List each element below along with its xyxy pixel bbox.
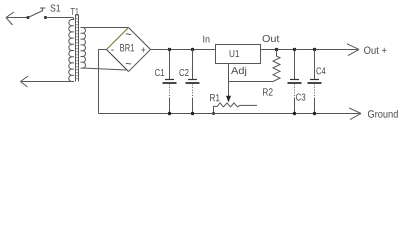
- label R2: [263, 88, 273, 95]
- wire U1 Out rail: [261, 49, 358, 51]
- label In pin: [203, 36, 209, 43]
- wire Adj down to R1 wiper: [228, 82, 230, 97]
- capacitor C4: [308, 50, 322, 114]
- junction C2 bottom: [191, 112, 194, 115]
- label C2: [179, 69, 188, 76]
- label Out pin: [263, 35, 280, 42]
- AC input arrow top-left: [6, 12, 14, 25]
- label BR1 tilde top: [126, 33, 131, 34]
- transformer T1 primary winding: [69, 20, 74, 82]
- junction C1 top: [168, 48, 171, 51]
- switch S1: [27, 8, 48, 19]
- AC input arrow bottom-left: [21, 76, 29, 87]
- capacitor C3: [288, 50, 302, 114]
- bridge rectifier BR1: [107, 28, 151, 72]
- label C3: [296, 94, 305, 101]
- transformer T1 secondary winding: [81, 28, 86, 69]
- label C1: [155, 69, 164, 76]
- junction R2 top: [275, 48, 278, 51]
- wire secondary top to bridge: [82, 27, 128, 29]
- ground rail: [99, 113, 360, 115]
- junction C4 top: [313, 48, 316, 51]
- wire bridge plus to U1 In: [151, 49, 216, 51]
- wire U1 Adj pin: [228, 64, 230, 82]
- junction C4 bottom: [313, 112, 316, 115]
- resistor R2: [273, 50, 280, 82]
- label BR1 plus: [141, 47, 145, 52]
- label S1: [50, 5, 60, 12]
- label T1: [71, 8, 79, 15]
- capacitor C1: [163, 50, 177, 114]
- regulator U1 box: [216, 45, 261, 64]
- label Out +: [364, 46, 386, 53]
- label C4: [316, 67, 325, 74]
- wire bridge minus to ground rail: [99, 50, 107, 114]
- label U1: [230, 50, 239, 57]
- wire switch to transformer: [46, 18, 75, 20]
- junction C2 top: [191, 48, 194, 51]
- transformer T1 core: [76, 15, 79, 82]
- wire secondary bottom to bridge: [82, 68, 126, 70]
- capacitor C2: [186, 50, 200, 114]
- potentiometer R1: [214, 103, 258, 114]
- label BR1 tilde bottom: [126, 63, 131, 64]
- junction C1 bottom: [168, 112, 171, 115]
- R1 wiper arrow: [226, 96, 231, 103]
- label BR1 minus: [111, 49, 114, 52]
- wire primary bottom to AC arrow: [21, 81, 75, 83]
- ground arrow: [349, 108, 361, 120]
- output arrow: [347, 44, 359, 56]
- wire AC top to switch: [6, 17, 28, 19]
- junction C3 top: [293, 48, 296, 51]
- label R1: [210, 94, 219, 101]
- junction R1 ground: [212, 112, 215, 115]
- wire Adj to R2 bottom: [229, 81, 274, 83]
- label Adj pin: [231, 67, 246, 76]
- label Ground: [368, 110, 398, 118]
- label BR1: [120, 44, 134, 51]
- junction C3 bottom: [293, 112, 296, 115]
